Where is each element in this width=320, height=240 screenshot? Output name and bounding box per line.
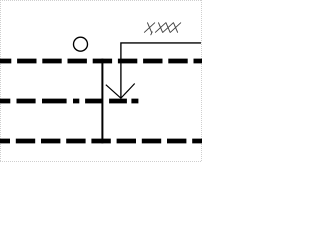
dashed line middle: [0, 99, 138, 104]
label X,XXX: [144, 23, 180, 35]
arrowhead: [106, 84, 135, 99]
circle marker: [74, 37, 88, 51]
dashed line bottom: [0, 139, 202, 144]
vertical line: [101, 59, 103, 144]
dashed line top: [0, 59, 202, 64]
leader line: [121, 43, 201, 98]
